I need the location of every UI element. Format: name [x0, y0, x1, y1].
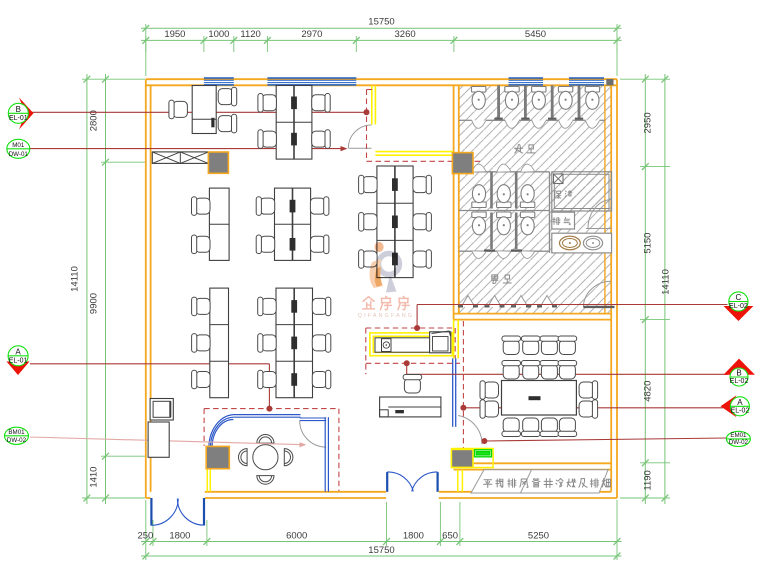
- svg-text:250: 250: [137, 530, 153, 541]
- svg-text:2950: 2950: [643, 112, 654, 133]
- svg-text:BM01: BM01: [8, 429, 25, 436]
- svg-text:6000: 6000: [286, 530, 307, 541]
- svg-text:EL-01: EL-01: [9, 358, 28, 365]
- svg-text:EL-01: EL-01: [9, 115, 28, 122]
- svg-text:14110: 14110: [70, 266, 81, 292]
- svg-text:DW-02: DW-02: [729, 439, 749, 446]
- svg-text:15750: 15750: [368, 17, 394, 28]
- svg-text:B: B: [736, 369, 741, 378]
- svg-text:15750: 15750: [368, 545, 394, 556]
- svg-text:A: A: [15, 347, 21, 356]
- svg-text:1410: 1410: [89, 467, 100, 488]
- svg-text:9900: 9900: [89, 293, 100, 314]
- svg-text:5450: 5450: [525, 29, 546, 40]
- svg-text:650: 650: [442, 530, 458, 541]
- svg-text:1950: 1950: [164, 29, 185, 40]
- svg-text:1190: 1190: [643, 470, 654, 490]
- svg-text:QIFANGFANG: QIFANGFANG: [358, 313, 414, 319]
- svg-text:A: A: [737, 398, 743, 407]
- svg-text:2800: 2800: [89, 110, 100, 131]
- svg-text:EL-02: EL-02: [730, 378, 749, 385]
- svg-text:EM01: EM01: [730, 432, 747, 439]
- svg-text:14110: 14110: [661, 269, 672, 295]
- svg-text:M01: M01: [12, 142, 25, 149]
- svg-text:DW-02: DW-02: [7, 437, 27, 444]
- svg-text:5250: 5250: [528, 530, 549, 541]
- svg-text:3260: 3260: [395, 29, 416, 40]
- svg-text:1800: 1800: [403, 530, 424, 541]
- svg-text:B: B: [16, 105, 21, 114]
- svg-text:EL-02: EL-02: [729, 303, 748, 310]
- svg-text:1120: 1120: [240, 29, 260, 40]
- svg-text:DW-01: DW-01: [9, 151, 29, 158]
- svg-text:4820: 4820: [643, 381, 654, 402]
- svg-text:C: C: [736, 293, 742, 302]
- svg-text:5150: 5150: [643, 233, 654, 254]
- svg-text:1000: 1000: [208, 29, 229, 40]
- svg-text:2970: 2970: [301, 29, 322, 40]
- svg-text:EL-02: EL-02: [731, 408, 750, 415]
- svg-text:1800: 1800: [169, 530, 190, 541]
